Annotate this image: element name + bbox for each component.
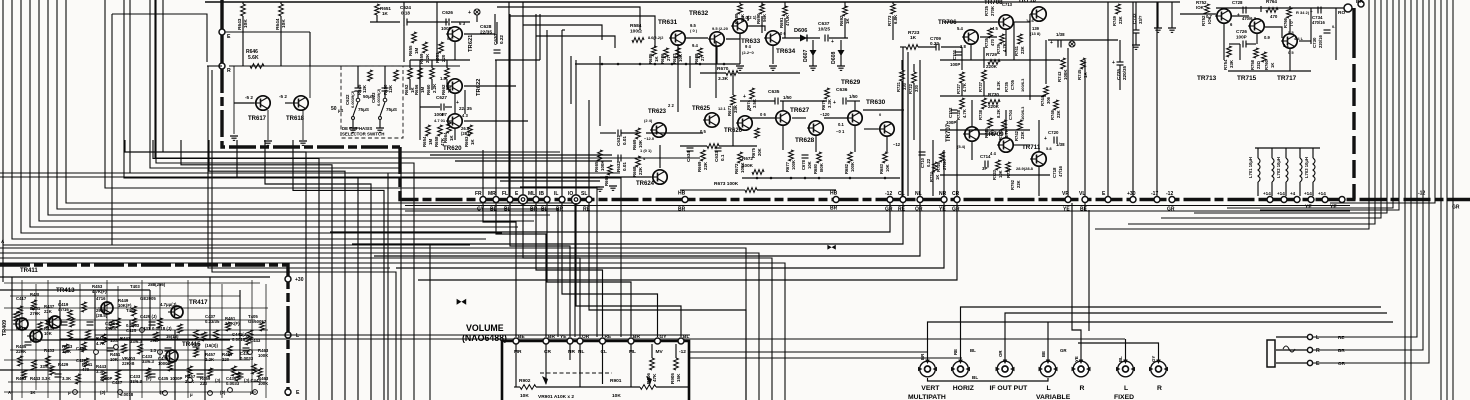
svg-text:OR: OR	[998, 350, 1003, 357]
transistor TR631	[669, 31, 685, 45]
svg-text:OR: OR	[915, 207, 923, 213]
svg-text:0.22: 0.22	[499, 35, 504, 44]
svg-text:NL: NL	[578, 349, 584, 355]
svg-text:−0 1: −0 1	[836, 129, 845, 134]
svg-text:1/38: 1/38	[1056, 142, 1065, 147]
svg-text:TR620: TR620	[443, 145, 462, 152]
svg-text:IOK: IOK	[1207, 15, 1212, 24]
svg-text:56K: 56K	[762, 13, 767, 22]
svg-text:1/50: 1/50	[849, 94, 858, 99]
wire TR617 base	[233, 66, 235, 134]
svg-text:MV: MV	[656, 349, 664, 355]
svg-text:T403: T403	[130, 284, 140, 289]
svg-text:R665: R665	[594, 161, 599, 172]
svg-text:22K: 22K	[1020, 131, 1025, 139]
svg-text:R764: R764	[1266, 0, 1277, 4]
svg-text:R658: R658	[434, 136, 439, 147]
node bus FR	[480, 197, 486, 203]
capacitor C623	[382, 88, 389, 91]
node L	[285, 332, 291, 338]
svg-text:R688: R688	[694, 53, 699, 64]
transistor TR413	[98, 302, 113, 314]
svg-text:10K: 10K	[110, 357, 119, 362]
transistor TR618	[292, 96, 308, 110]
wire top rail TR71x	[1216, 7, 1344, 9]
wires volume internals	[515, 344, 517, 387]
svg-text:R680: R680	[813, 163, 818, 174]
wire TR618 col	[309, 32, 311, 98]
svg-text:BR: BR	[678, 207, 686, 213]
wires TR70x to bus	[902, 47, 904, 196]
svg-text:1 (0 1): 1 (0 1)	[640, 148, 652, 153]
svg-text:100K: 100K	[1063, 69, 1068, 80]
svg-text:TR633: TR633	[741, 38, 761, 45]
node E	[219, 29, 225, 35]
wire weave extras right	[589, 203, 746, 400]
svg-text:R735: R735	[984, 37, 989, 48]
svg-text:TR417: TR417	[189, 299, 208, 306]
ground TR617	[230, 136, 238, 140]
svg-text:BL: BL	[972, 375, 978, 380]
svg-text:100P: 100P	[441, 26, 452, 31]
svg-text:R749: R749	[1112, 15, 1117, 26]
svg-text:C704: C704	[1008, 109, 1013, 120]
transistor TR713	[1215, 9, 1231, 23]
svg-text:IL: IL	[554, 191, 558, 197]
wire R773 column	[891, 4, 896, 14]
svg-text:TR715: TR715	[1237, 75, 1257, 82]
node E	[285, 389, 291, 395]
svg-text:75μS: 75μS	[358, 107, 369, 112]
svg-text:(2 4): (2 4)	[644, 118, 653, 123]
resistor R670	[707, 144, 719, 149]
svg-text:1K: 1K	[1270, 63, 1275, 68]
svg-text:R: R	[227, 68, 231, 74]
svg-text:33K: 33K	[1229, 59, 1234, 68]
svg-text:1.3: 1.3	[150, 348, 157, 353]
wire bundle right	[1095, 0, 1369, 229]
svg-text:CR: CR	[952, 191, 960, 197]
wire col x437	[436, 2, 438, 60]
svg-text:100K: 100K	[742, 163, 754, 168]
svg-text:10/25: 10/25	[818, 27, 830, 33]
svg-text:IOK: IOK	[1196, 5, 1205, 10]
svg-text:2.2K: 2.2K	[205, 357, 215, 362]
svg-text:VOLUME: VOLUME	[466, 323, 504, 333]
transistor TR709	[997, 138, 1013, 152]
svg-text:C627: C627	[436, 95, 447, 100]
svg-text:R664: R664	[443, 132, 448, 143]
svg-text:R673 100K: R673 100K	[714, 181, 739, 187]
resistor R760	[1262, 52, 1267, 62]
svg-text:4.7K: 4.7K	[962, 109, 967, 118]
resistor R736	[988, 118, 993, 128]
resistor R740	[1002, 120, 1007, 130]
svg-text:3P: 3P	[982, 166, 987, 171]
jack HORIZ	[951, 360, 970, 377]
resistor R682	[848, 152, 853, 163]
wires TR70x	[900, 46, 906, 48]
resistor R680	[817, 152, 822, 163]
svg-text:100P: 100P	[950, 62, 960, 67]
svg-text:28.9(28.8: 28.9(28.8	[1016, 166, 1034, 171]
wire top rail right	[910, 1, 1180, 3]
svg-text:R740: R740	[998, 129, 1003, 140]
svg-text:C429 (J): C429 (J)	[140, 314, 157, 319]
resistor R662	[445, 68, 450, 79]
svg-text:R721: R721	[896, 81, 901, 92]
wires TR71x frame	[1180, 13, 1216, 15]
svg-text:(NAO6488): (NAO6488)	[462, 333, 507, 343]
resistor R746	[1054, 100, 1059, 110]
svg-text:1K: 1K	[382, 11, 389, 16]
svg-text:1K: 1K	[654, 56, 659, 62]
svg-text:R727: R727	[956, 83, 961, 94]
svg-text:μ: μ	[190, 392, 193, 397]
ground g2	[1157, 2, 1159, 28]
svg-text:100K: 100K	[850, 162, 855, 172]
svg-text:470: 470	[1270, 14, 1278, 19]
resistor R743	[1061, 58, 1066, 69]
transistor TR622	[446, 79, 462, 93]
svg-text:+30: +30	[295, 277, 304, 283]
svg-text:−12.0: −12.0	[644, 136, 655, 141]
svg-text:-12: -12	[679, 349, 686, 355]
svg-text:C726: C726	[1236, 29, 1247, 34]
svg-text:R: R	[1157, 385, 1162, 392]
svg-text:RE: RE	[898, 207, 906, 213]
svg-text:R654: R654	[422, 136, 427, 147]
resistor R687	[676, 48, 681, 58]
svg-text:22/ 35: 22/ 35	[459, 106, 472, 111]
svg-text:R652: R652	[404, 84, 409, 95]
svg-text:R754: R754	[1223, 59, 1228, 70]
resistor R661	[439, 42, 444, 53]
svg-text:1000P: 1000P	[170, 376, 183, 381]
node bus +4	[1294, 197, 1300, 203]
svg-text:D608: D608	[831, 51, 837, 64]
svg-text:(J): (J)	[220, 390, 226, 395]
svg-text:50: 50	[331, 106, 337, 112]
transistor TR632	[708, 32, 724, 46]
svg-text:R689: R689	[734, 13, 739, 24]
svg-text:220: 220	[222, 357, 230, 362]
svg-text:C427: C427	[112, 380, 123, 385]
svg-text:12.1: 12.1	[718, 106, 727, 111]
svg-text:-12: -12	[885, 191, 892, 197]
wires top middle mesh	[309, 32, 311, 66]
resistor R663	[468, 125, 473, 136]
node bus CR	[954, 197, 960, 203]
svg-text:RE: RE	[1338, 335, 1344, 340]
svg-text:R672: R672	[742, 156, 753, 161]
svg-text:3.3K: 3.3K	[62, 376, 72, 381]
svg-text:C710: C710	[920, 157, 925, 168]
node bus CL	[900, 197, 906, 203]
svg-text:MULTIPATH: MULTIPATH	[908, 394, 946, 400]
svg-text:E: E	[1316, 361, 1320, 367]
resistor R652	[408, 68, 413, 79]
svg-text:10K: 10K	[678, 53, 683, 62]
svg-text:TR634: TR634	[776, 48, 796, 55]
transistor TR710	[1030, 7, 1046, 21]
svg-text:5 1: 5 1	[1283, 43, 1289, 48]
svg-text:R728: R728	[956, 109, 961, 120]
svg-text:R742: R742	[1014, 130, 1019, 141]
wire weave bus to volume	[483, 203, 516, 337]
svg-text:D607: D607	[803, 49, 809, 62]
svg-text:8.6(2-2(2: 8.6(2-2(2	[648, 36, 663, 40]
svg-text:9.5 (2-20: 9.5 (2-20	[712, 26, 729, 31]
svg-text:+14: +14	[1277, 191, 1285, 196]
svg-text:GR: GR	[1060, 348, 1067, 353]
wires TR629 row	[680, 145, 707, 147]
svg-text:220: 220	[441, 54, 446, 62]
resistor R658	[438, 125, 443, 136]
svg-text:0.: 0.	[1332, 24, 1335, 29]
svg-text:0.0018: 0.0018	[232, 337, 246, 342]
resistor R692	[843, 6, 848, 16]
svg-text:SELECTOR SWITCH: SELECTOR SWITCH	[342, 132, 384, 137]
svg-text:C626: C626	[442, 10, 453, 15]
svg-text:C705: C705	[1010, 79, 1015, 90]
svg-text:D606: D606	[794, 28, 807, 34]
svg-text:R744: R744	[1040, 95, 1045, 106]
node bus NR	[941, 197, 947, 203]
wire TR63x bottom row	[575, 63, 740, 65]
svg-text:YE: YE	[1074, 356, 1079, 362]
node vol BE	[513, 338, 519, 344]
svg-text:47/16: 47/16	[1058, 165, 1063, 177]
block TR409-TR419 circuitry	[0, 276, 270, 278]
svg-text:470/16: 470/16	[1312, 20, 1325, 25]
svg-text:22K: 22K	[1118, 16, 1123, 24]
svg-text:-5 2: -5 2	[245, 95, 253, 100]
svg-text:BR: BR	[1338, 348, 1345, 353]
svg-text:1K: 1K	[910, 35, 917, 41]
node vol GY	[655, 338, 661, 344]
node bus IO	[571, 195, 580, 204]
transistor TR626	[736, 116, 752, 130]
svg-text:GR: GR	[885, 207, 893, 213]
svg-text:5.8: 5.8	[1046, 146, 1052, 151]
svg-text:OR: OR	[582, 334, 590, 340]
svg-text:0 6: 0 6	[447, 36, 453, 41]
svg-text:RE: RE	[605, 334, 612, 340]
svg-text:C634: C634	[686, 151, 691, 162]
svg-text:R743: R743	[1057, 71, 1062, 82]
svg-text:I80K: I80K	[819, 163, 824, 172]
svg-text:0.22: 0.22	[930, 41, 939, 46]
svg-text:+: +	[831, 39, 834, 45]
svg-text:5.4: 5.4	[957, 26, 963, 31]
resistor R669a	[636, 128, 641, 139]
svg-text:R672: R672	[734, 163, 739, 174]
resistor R644	[279, 4, 284, 16]
svg-text:10K: 10K	[612, 393, 621, 399]
svg-text:1K: 1K	[30, 390, 36, 395]
svg-text:C628: C628	[480, 24, 492, 30]
transistor TR621	[446, 27, 462, 41]
svg-text:R668: R668	[632, 166, 637, 177]
svg-text:BR: BR	[548, 334, 555, 340]
wire jacks bottom link BL	[928, 378, 1049, 381]
svg-text:L: L	[1124, 385, 1128, 392]
svg-text:TR622: TR622	[476, 79, 482, 96]
resistor R664	[447, 122, 452, 133]
svg-text:4.7K(F): 4.7K(F)	[92, 289, 107, 294]
resistor R674	[750, 88, 755, 99]
svg-text:1.3: 1.3	[440, 76, 446, 81]
svg-text:270K: 270K	[990, 6, 995, 16]
svg-text:470: 470	[82, 367, 90, 372]
resistor R677	[789, 150, 794, 161]
wire left horizontals upper	[0, 172, 620, 174]
svg-text:0 5: 0 5	[1288, 50, 1294, 55]
block pin rings	[114, 345, 119, 350]
node bus VL	[1082, 197, 1088, 203]
svg-text:(5.4): (5.4)	[957, 144, 966, 149]
svg-text:TR617: TR617	[248, 116, 267, 122]
svg-text:TR707: TR707	[946, 123, 952, 142]
svg-text:12K: 12K	[362, 84, 367, 93]
svg-text:R660: R660	[426, 84, 431, 95]
svg-text:ML: ML	[528, 191, 535, 197]
node vol BR	[543, 338, 549, 344]
wire E row	[222, 31, 310, 33]
svg-text:1M: 1M	[420, 87, 425, 93]
svg-text:R682: R682	[844, 163, 849, 174]
svg-text:CR: CR	[544, 349, 551, 355]
svg-text:27: 27	[700, 56, 705, 61]
svg-text:TR630: TR630	[866, 99, 886, 106]
svg-text:+14: +14	[1304, 191, 1312, 196]
svg-text:3.3K: 3.3K	[718, 76, 729, 82]
svg-text:HORIZ: HORIZ	[953, 385, 974, 392]
resistor R659	[423, 42, 428, 53]
resistor R689	[738, 4, 743, 14]
wire R node drop pair	[208, 66, 390, 268]
resistor R741	[1018, 34, 1023, 44]
svg-text:R584: R584	[630, 23, 642, 29]
resistor R643	[241, 4, 246, 16]
svg-text:R738: R738	[978, 109, 983, 120]
wires jacks up	[928, 322, 1394, 360]
node bus HB	[682, 197, 688, 203]
resistor R683	[883, 152, 888, 163]
resistor R665	[598, 150, 603, 161]
svg-text:C714: C714	[980, 154, 991, 159]
svg-text:TR411: TR411	[20, 268, 38, 274]
transistor TR706	[962, 30, 978, 44]
svg-text:0 6: 0 6	[760, 112, 766, 117]
svg-text:100/6.3: 100/6.3	[1020, 78, 1025, 92]
wire under-bus 1	[405, 205, 1350, 207]
svg-text:R669: R669	[697, 161, 702, 172]
svg-text:TR623: TR623	[648, 109, 667, 115]
svg-text:220/16: 220/16	[1318, 35, 1323, 48]
svg-text:+: +	[468, 10, 471, 16]
svg-text:R643: R643	[237, 18, 243, 30]
svg-text:−120: −120	[820, 112, 830, 117]
block TR4xx extra resistors	[14, 312, 19, 321]
transistor TR634	[764, 31, 780, 45]
svg-text:GY: GY	[660, 334, 668, 340]
resistor R722	[912, 72, 917, 83]
svg-text:C730: C730	[1312, 37, 1317, 48]
resistor R737	[982, 70, 987, 81]
resistor R733 R734	[996, 160, 1001, 170]
svg-text:MR: MR	[514, 349, 522, 355]
svg-text:1K: 1K	[449, 135, 454, 141]
resistor R727	[960, 72, 965, 83]
svg-text:75μS: 75μS	[386, 107, 397, 112]
svg-text:TR710: TR710	[1018, 0, 1037, 4]
svg-text:0.0039(J): 0.0039(J)	[350, 90, 355, 108]
svg-text:0.0039(J): 0.0039(J)	[376, 88, 381, 106]
svg-text:R736: R736	[984, 127, 989, 138]
resistor R745	[1081, 58, 1086, 69]
wire under-bus 2	[405, 210, 1350, 212]
svg-text:BR: BR	[1356, 0, 1363, 5]
svg-text:TR627: TR627	[790, 107, 810, 114]
svg-text:4 4 L: 4 4 L	[1294, 36, 1304, 41]
svg-text:1M: 1M	[414, 48, 419, 54]
node bus +14	[1322, 197, 1328, 203]
svg-text:BL: BL	[683, 334, 689, 340]
main signal bus	[400, 147, 1470, 200]
wire C636 to TR630	[847, 100, 860, 102]
transistor TR625	[703, 113, 719, 127]
svg-text:GY: GY	[1151, 356, 1156, 362]
resistor R671	[731, 95, 736, 105]
svg-text:0.9: 0.9	[1264, 35, 1270, 40]
svg-text:27: 27	[666, 56, 671, 61]
svg-text:0.22: 0.22	[926, 158, 931, 167]
svg-text:IF OUT PUT: IF OUT PUT	[990, 385, 1029, 392]
node bus SL	[586, 197, 592, 203]
svg-text:C713: C713	[1002, 2, 1013, 7]
svg-text:BE: BE	[1041, 351, 1046, 357]
wire bundle left nest	[3, 0, 470, 245]
wire weave from g2 circles	[330, 203, 890, 232]
svg-text:-12: -12	[1166, 191, 1173, 197]
svg-text:R685: R685	[648, 53, 653, 64]
svg-text:μS: μS	[338, 108, 344, 113]
svg-text:R662: R662	[441, 84, 446, 95]
svg-text:10K: 10K	[807, 161, 812, 169]
svg-text:220K: 220K	[986, 64, 998, 69]
node bus E	[518, 195, 527, 204]
node bus -17	[1154, 197, 1160, 203]
svg-text:306: 306	[1046, 96, 1051, 104]
svg-text:R429: R429	[58, 362, 69, 367]
svg-text:270K: 270K	[30, 311, 41, 316]
svg-text:4716: 4716	[96, 296, 106, 301]
svg-text:0.01: 0.01	[622, 162, 627, 171]
transistor TR620	[446, 114, 462, 128]
svg-text:R: R	[1316, 348, 1320, 354]
resistor R655	[412, 32, 417, 43]
svg-text:220/35: 220/35	[1122, 66, 1127, 80]
svg-text:47UK: 47UK	[785, 14, 790, 26]
svg-text:+: +	[1112, 60, 1115, 66]
svg-text:TR632: TR632	[689, 10, 709, 17]
svg-text:100P: 100P	[1236, 35, 1247, 40]
svg-text:8.2K: 8.2K	[996, 81, 1001, 90]
svg-text:22K: 22K	[44, 309, 53, 314]
svg-text:R661: R661	[435, 52, 440, 63]
